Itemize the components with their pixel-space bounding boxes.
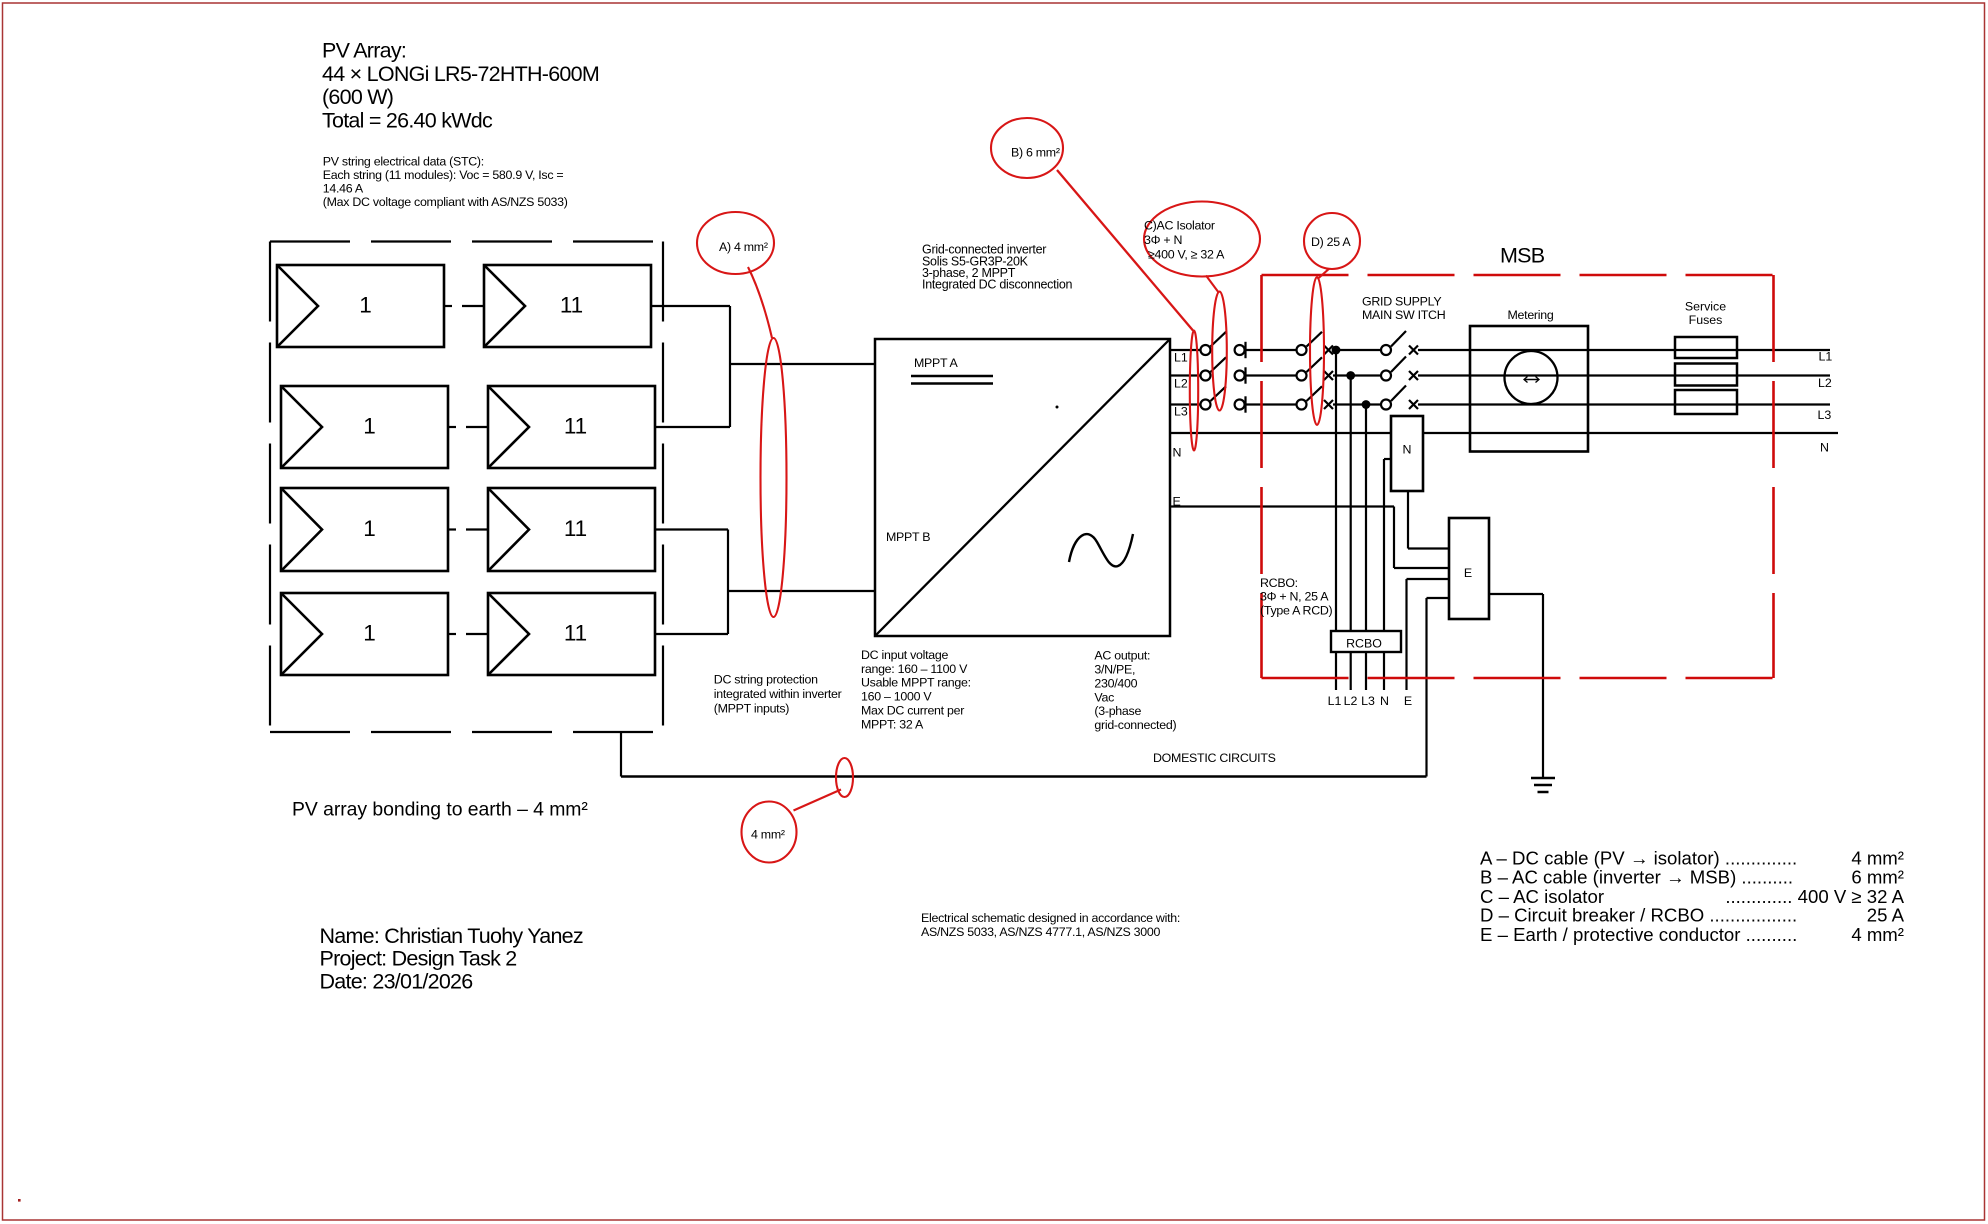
svg-text:3Φ + N: 3Φ + N (1144, 233, 1182, 247)
svg-text:11: 11 (560, 293, 583, 318)
svg-text:range: 160 – 1100 V: range: 160 – 1100 V (861, 662, 968, 676)
svg-text:Metering: Metering (1508, 308, 1554, 322)
svg-text:D – Circuit breaker / RCBO ...: D – Circuit breaker / RCBO .............… (1480, 905, 1797, 926)
svg-text:Each string (11 modules): Voc: Each string (11 modules): Voc = 580.9 V,… (323, 168, 564, 182)
svg-text:14.46 A: 14.46 A (323, 182, 364, 196)
svg-text:A – DC cable (PV → isolator) .: A – DC cable (PV → isolator) ...........… (1480, 848, 1797, 869)
svg-text:6 mm²: 6 mm² (1851, 867, 1904, 888)
svg-text:4 mm²: 4 mm² (751, 828, 785, 842)
svg-text:PV array bonding to earth – 4: PV array bonding to earth – 4 mm² (292, 799, 588, 821)
svg-text:1: 1 (363, 414, 376, 439)
svg-text:N: N (1173, 446, 1182, 460)
svg-text:(MPPT inputs): (MPPT inputs) (714, 702, 789, 716)
svg-text:N: N (1820, 441, 1829, 455)
svg-text:PV Array:: PV Array: (322, 39, 406, 63)
svg-text:............. 400 V ≥ 32 A: ............. 400 V ≥ 32 A (1725, 886, 1904, 907)
svg-text:44 × LONGi LR5-72HTH-600M: 44 × LONGi LR5-72HTH-600M (322, 62, 599, 86)
svg-text:(Type A RCD): (Type A RCD) (1260, 603, 1333, 617)
svg-text:1: 1 (363, 621, 376, 646)
svg-text:PV string electrical data (STC: PV string electrical data (STC): (323, 154, 484, 168)
svg-text:Usable MPPT range:: Usable MPPT range: (861, 676, 971, 690)
svg-text:≥400 V, ≥ 32 A: ≥400 V, ≥ 32 A (1148, 248, 1225, 262)
svg-text:4 mm²: 4 mm² (1851, 924, 1904, 945)
svg-text:3Φ + N, 25 A: 3Φ + N, 25 A (1260, 590, 1329, 604)
svg-text:160 – 1000 V: 160 – 1000 V (861, 690, 932, 704)
svg-text:Date: 23/01/2026: Date: 23/01/2026 (320, 969, 474, 993)
svg-text:Name: Christian Tuohy Yanez: Name: Christian Tuohy Yanez (320, 924, 583, 948)
svg-text:E: E (1464, 566, 1472, 580)
svg-text:Vac: Vac (1094, 690, 1114, 704)
svg-text:MAIN SW ITCH: MAIN SW ITCH (1362, 308, 1445, 322)
svg-text:MPPT: 32 A: MPPT: 32 A (861, 717, 924, 731)
svg-text:230/400: 230/400 (1094, 676, 1137, 690)
svg-text:(Max DC voltage compliant with: (Max DC voltage compliant with AS/NZS 50… (323, 195, 568, 209)
svg-text:L3: L3 (1818, 408, 1832, 422)
svg-text:Fuses: Fuses (1689, 313, 1723, 327)
svg-text:L2: L2 (1818, 376, 1832, 390)
svg-text:N: N (1403, 443, 1412, 457)
svg-text:MPPT B: MPPT B (886, 530, 930, 544)
svg-text:AC output:: AC output: (1094, 649, 1150, 663)
svg-text:1: 1 (363, 516, 376, 541)
svg-text:Max DC current per: Max DC current per (861, 704, 964, 718)
svg-text:L3: L3 (1174, 405, 1188, 419)
svg-text:MPPT A: MPPT A (914, 356, 959, 370)
svg-text:RCBO: RCBO (1346, 637, 1382, 651)
svg-text:1: 1 (359, 293, 372, 318)
svg-text:D) 25 A: D) 25 A (1311, 235, 1351, 249)
svg-text:L1: L1 (1819, 350, 1833, 364)
svg-text:E: E (1173, 495, 1181, 509)
svg-text:L2: L2 (1344, 694, 1358, 708)
svg-text:25 A: 25 A (1867, 905, 1905, 926)
svg-text:(3-phase: (3-phase (1094, 704, 1141, 718)
svg-text:B) 6 mm²: B) 6 mm² (1011, 146, 1060, 160)
svg-text:Project: Design Task 2: Project: Design Task 2 (320, 947, 517, 971)
svg-text:11: 11 (564, 621, 587, 646)
svg-text:Total = 26.40 kWdc: Total = 26.40 kWdc (322, 108, 493, 132)
svg-text:integrated within inverter: integrated within inverter (714, 687, 842, 701)
svg-text:E – Earth / protective conduct: E – Earth / protective conductor .......… (1480, 924, 1797, 945)
svg-text:L2: L2 (1174, 377, 1188, 391)
svg-text:DC string protection: DC string protection (714, 672, 818, 686)
svg-text:(600 W): (600 W) (322, 85, 393, 109)
svg-text:3/N/PE,: 3/N/PE, (1094, 663, 1135, 677)
svg-text:4 mm²: 4 mm² (1851, 848, 1904, 869)
svg-text:11: 11 (564, 516, 587, 541)
svg-text:DC input voltage: DC input voltage (861, 648, 949, 662)
svg-text:AS/NZS 5033, AS/NZS 4777.1, AS: AS/NZS 5033, AS/NZS 4777.1, AS/NZS 3000 (921, 925, 1160, 939)
svg-text:L1: L1 (1328, 694, 1342, 708)
svg-text:A) 4 mm²: A) 4 mm² (719, 240, 768, 254)
svg-text:GRID SUPPLY: GRID SUPPLY (1362, 295, 1441, 309)
svg-text:grid-connected): grid-connected) (1094, 718, 1176, 732)
svg-text:C)AC Isolator: C)AC Isolator (1144, 218, 1215, 232)
svg-text:L1: L1 (1174, 351, 1188, 365)
svg-text:DOMESTIC CIRCUITS: DOMESTIC CIRCUITS (1153, 751, 1276, 765)
svg-text:B – AC cable (inverter → MSB): B – AC cable (inverter → MSB) .......... (1480, 867, 1793, 888)
svg-text:L3: L3 (1361, 694, 1375, 708)
svg-text:RCBO:: RCBO: (1260, 576, 1298, 590)
svg-text:N: N (1380, 694, 1389, 708)
svg-text:MSB: MSB (1500, 244, 1545, 268)
svg-text:E: E (1404, 694, 1412, 708)
svg-text:Electrical schematic designed: Electrical schematic designed in accorda… (921, 911, 1180, 925)
svg-text:Integrated DC disconnection: Integrated DC disconnection (922, 278, 1073, 292)
svg-text:11: 11 (564, 414, 587, 439)
svg-text:Service: Service (1685, 300, 1726, 314)
